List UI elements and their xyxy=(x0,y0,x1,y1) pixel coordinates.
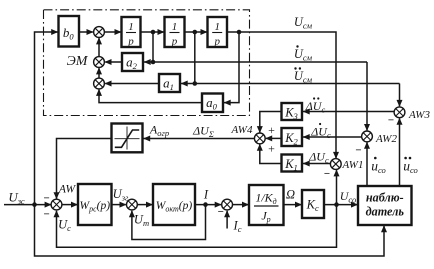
svg-text:−: − xyxy=(355,145,361,157)
svg-text:I: I xyxy=(203,188,209,202)
dashed box EM (reference model) xyxy=(44,10,250,116)
label uddot-co xyxy=(404,157,407,160)
integrator block 1/p #1 xyxy=(122,17,141,47)
svg-text:p: p xyxy=(127,36,134,48)
svg-text:−: − xyxy=(388,115,394,127)
block K2 xyxy=(282,128,303,146)
wire AW4 output to saturation block xyxy=(143,138,254,140)
svg-text:AW1: AW1 xyxy=(342,159,364,171)
summing junction AW1 xyxy=(330,159,341,170)
svg-text:датель: датель xyxy=(366,205,405,219)
svg-text:p: p xyxy=(171,36,178,48)
wire AW3 output to K3 xyxy=(303,111,394,113)
wire Wrc to summer Ut xyxy=(112,204,126,206)
wire K1 output into AW4 bottom xyxy=(260,145,282,164)
wire tap node C down to row3 xyxy=(194,32,196,84)
wire AW2 output to K2 xyxy=(303,136,362,138)
summing junction S2 xyxy=(94,57,105,68)
svg-text:p: p xyxy=(213,36,220,48)
wire S3 up to S2 xyxy=(98,68,100,78)
block a2 xyxy=(122,53,143,71)
summing junction AW4 xyxy=(254,133,265,144)
svg-text:наблю-: наблю- xyxy=(366,191,404,205)
svg-text:AW4: AW4 xyxy=(231,124,253,136)
summing junction AW (speed error) xyxy=(51,199,62,210)
block Wrc(p) speed regulator xyxy=(78,184,112,225)
wire row2 down into AW2 xyxy=(366,62,368,130)
wire a1 output to S3 xyxy=(105,83,159,85)
svg-text:−: − xyxy=(324,168,330,180)
wire 1/p #1 to 1/p #2 with node B xyxy=(141,31,164,33)
summing junction S3 xyxy=(94,78,105,89)
saturation block A_ogr xyxy=(112,124,143,153)
wire tap node B down to row2 xyxy=(152,32,154,62)
svg-text:Ω: Ω xyxy=(286,188,295,202)
wire a0 output to S3 bottom xyxy=(99,90,202,103)
wire row3 Uddot-sm: into a1 and right to AW3 xyxy=(181,83,400,85)
wire a2 output to S2 xyxy=(105,61,122,63)
wire AW1 output to K1 xyxy=(303,163,330,165)
block a0 xyxy=(202,94,223,113)
svg-text:−: − xyxy=(218,206,224,218)
block Wokt(p) xyxy=(153,184,195,225)
integrator block 1/p #3 xyxy=(208,17,228,47)
wire current feedback node I down, left, up into summer Ut xyxy=(132,205,206,240)
wire Uzs input to node A and summer AW xyxy=(4,204,51,206)
svg-text:1: 1 xyxy=(172,21,178,33)
wire b0 to summer S1 xyxy=(79,31,93,33)
wire Uc feedback: node E down, left, up into AW bottom xyxy=(57,205,337,248)
wire Usm: 1/p #3 output to the right, down into AW1, node D xyxy=(227,32,336,158)
label udot-co xyxy=(374,157,377,160)
integrator block 1/p #2 xyxy=(165,17,185,47)
summing junction Ut xyxy=(126,199,137,210)
label delta-Udot-c xyxy=(319,123,321,125)
block a1 xyxy=(159,74,180,92)
block K3 xyxy=(282,103,303,120)
wire observer top stub up into AW3 xyxy=(399,118,401,186)
wire Omega: 1/Kd to Kc xyxy=(284,204,302,206)
label Udot-sm xyxy=(296,45,298,47)
wire node A down and along bottom to observer input xyxy=(35,205,385,256)
wire tap node D down to a0 input xyxy=(224,32,239,103)
block 1/Kd over Jp xyxy=(249,185,284,225)
wire S2 up to S1 xyxy=(98,38,100,57)
wire summer Ut to Wokt xyxy=(137,204,152,206)
wire node E up into AW1 bottom xyxy=(336,170,338,205)
label Uddot-sm xyxy=(294,67,296,69)
block K1 xyxy=(282,155,303,172)
block b0 xyxy=(59,16,80,47)
svg-text:+: + xyxy=(268,123,275,137)
block observer (nablyudatel) xyxy=(358,186,412,225)
wire 1/p #2 to 1/p #3 with node C xyxy=(185,31,207,33)
wire observer top stub up into AW2 xyxy=(366,143,368,187)
wire Wokt to summer Ic with node I xyxy=(195,204,221,206)
wire saturation output down into summer AW xyxy=(57,139,112,199)
wire row3 down into AW3 xyxy=(399,84,401,107)
block Kc xyxy=(302,190,324,218)
wire row2 Udot-sm: into a2 and right to AW2 xyxy=(144,61,367,63)
svg-text:AW3: AW3 xyxy=(408,109,430,121)
svg-text:1: 1 xyxy=(128,21,134,33)
summing junction AW2 xyxy=(362,131,373,142)
wire feedforward riser node A up to b0 input xyxy=(35,32,58,205)
svg-text:+: + xyxy=(268,142,275,156)
wire K3 output into AW4 top xyxy=(260,112,282,133)
node A junction dot on Uzs line xyxy=(32,202,37,207)
summing junction S1 xyxy=(94,27,105,38)
svg-text:ЭМ: ЭМ xyxy=(67,54,89,69)
wire Ic stub into summer Ic xyxy=(226,211,228,229)
label delta-Uddot-c xyxy=(313,97,315,99)
wire S1 to integrator 1/p #1 xyxy=(104,31,120,33)
svg-text:AW2: AW2 xyxy=(375,133,397,145)
svg-text:AW: AW xyxy=(58,184,77,196)
wire Uco: Kc to observer with node E xyxy=(324,204,357,206)
svg-text:1: 1 xyxy=(214,21,220,33)
svg-text:−: − xyxy=(44,209,50,221)
svg-text:−: − xyxy=(44,193,50,205)
summing junction Ic xyxy=(222,199,233,210)
wire AW to Wrc xyxy=(62,204,77,206)
wire K2 output into AW4 xyxy=(266,137,282,139)
summing junction AW3 xyxy=(394,107,405,118)
wire summer Ic to block 1/Kd xyxy=(233,204,249,206)
